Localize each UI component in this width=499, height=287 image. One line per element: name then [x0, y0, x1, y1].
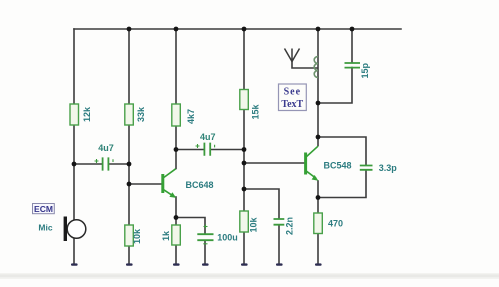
svg-text:See: See: [284, 87, 301, 98]
junction Q1 base node: [127, 182, 132, 187]
svg-text:TexT: TexT: [281, 99, 303, 110]
svg-text:470: 470: [328, 219, 343, 229]
svg-text:ECM: ECM: [34, 204, 53, 214]
junction tank bottom: [316, 101, 321, 106]
svg-text:3.3p: 3.3p: [379, 163, 398, 173]
wire Q1 base lead: [129, 183, 162, 185]
wire Q2 emitter down: [317, 181, 319, 213]
wire 3.3p top branch: [318, 137, 366, 165]
wire C1 left lead: [74, 163, 102, 165]
junction rail 15k: [242, 27, 247, 32]
wire C1 right lead: [109, 163, 129, 165]
capacitor 2.2n: [274, 219, 285, 225]
wire 2.2n branch: [244, 189, 279, 219]
capacitor 4u7 coupling: [196, 143, 215, 156]
wire mic lower lead: [73, 239, 75, 265]
svg-text:BC548: BC548: [323, 161, 351, 171]
svg-text:4k7: 4k7: [186, 109, 196, 124]
wire 4k7 upper lead: [175, 29, 177, 104]
antenna: [285, 49, 300, 62]
wire 15k to Q2 base node: [243, 110, 245, 212]
resistor 10k second: [240, 211, 249, 232]
svg-text:10k: 10k: [132, 228, 142, 244]
junction 2.2n tap: [242, 187, 247, 192]
junction Q2 emitter node: [316, 195, 321, 200]
wire C2 right lead: [211, 149, 244, 151]
resistor 4k7: [172, 104, 181, 126]
junction Q2 collector: [316, 135, 321, 140]
transistor Q1 BC648: [163, 169, 176, 198]
junction rail 15p: [350, 27, 355, 32]
wire 10k lower lead: [128, 246, 130, 264]
wire 1k lower lead: [175, 245, 177, 264]
label See TexT: [279, 84, 307, 111]
svg-text:12k: 12k: [82, 106, 92, 122]
wire 15p lower to tank: [318, 68, 352, 104]
wire Q1 emitter down: [175, 197, 177, 225]
wire 100u lower lead: [204, 241, 206, 264]
resistor 12k: [70, 104, 79, 125]
svg-text:4u7: 4u7: [98, 143, 114, 153]
ground 2.2n: [276, 263, 283, 265]
resistor 10k: [125, 225, 134, 246]
capacitor 100u: [197, 225, 213, 244]
resistor 33k: [125, 104, 134, 125]
wire left branch upper: [73, 29, 75, 104]
wire 15p upper lead: [351, 29, 353, 62]
inductor L1: [314, 57, 318, 78]
wire Q2 base lead: [244, 162, 304, 164]
svg-text:2.2n: 2.2n: [285, 217, 295, 235]
wire 10k(b) lower lead: [243, 232, 245, 264]
wire 4k7 to Q1 collector: [175, 126, 177, 169]
capacitor 4u7 input: [95, 157, 114, 170]
wire C2 left lead: [176, 149, 203, 151]
wire 470 lower lead: [317, 234, 319, 265]
wire 3.3p bottom branch: [318, 170, 366, 198]
capacitor 15p: [345, 63, 361, 68]
junction rail 4k7: [174, 27, 179, 32]
junction mic node: [72, 162, 77, 167]
junction C2 right: [242, 147, 247, 152]
svg-text:15p: 15p: [360, 62, 370, 78]
ground 470: [315, 263, 322, 265]
microphone ECM: [64, 217, 86, 242]
wire 12k to mic node: [73, 125, 75, 220]
background band: [0, 273, 499, 275]
ground 1k: [173, 263, 180, 265]
junction Q1 collector: [174, 147, 179, 152]
svg-text:100u: 100u: [217, 233, 238, 243]
ground 100u: [202, 263, 209, 265]
wire 15k upper lead: [243, 29, 245, 90]
svg-text:33k: 33k: [136, 106, 146, 122]
wire 33k to divider node: [128, 125, 130, 225]
ground mic: [71, 263, 78, 265]
svg-text:Mic: Mic: [38, 223, 52, 233]
wire antenna tap: [292, 62, 317, 69]
wire 100u branch: [176, 218, 205, 234]
label ECM: [33, 204, 55, 214]
junction Q1 emitter node: [174, 215, 179, 220]
wire top supply rail: [74, 28, 401, 30]
wire 2.2n lower lead: [278, 226, 280, 265]
svg-text:1k: 1k: [161, 230, 171, 241]
junction rail 33k: [127, 27, 132, 32]
junction C1 right: [127, 162, 132, 167]
ground 10k: [126, 263, 133, 265]
junction Q2 base node: [242, 161, 247, 166]
resistor 470: [314, 213, 323, 234]
transistor Q2 BC548: [306, 146, 319, 181]
wire tank branch vertical: [317, 29, 319, 146]
junction rail tank: [316, 27, 321, 32]
svg-text:BC648: BC648: [185, 180, 213, 190]
ground 10k second: [241, 263, 248, 265]
svg-text:10k: 10k: [249, 217, 259, 233]
resistor 15k: [240, 90, 249, 110]
wire 33k upper lead: [128, 29, 130, 104]
capacitor 3.3p: [360, 166, 373, 170]
svg-text:4u7: 4u7: [200, 132, 216, 142]
svg-text:15k: 15k: [251, 104, 261, 120]
resistor 1k: [172, 225, 181, 245]
